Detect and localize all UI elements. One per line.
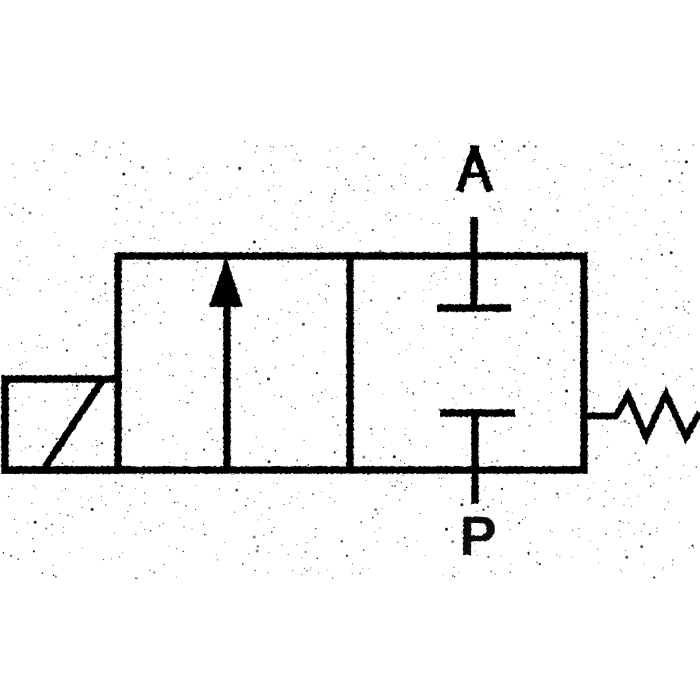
scan speckle noise bbox=[1, 141, 696, 578]
port P stem wire bbox=[471, 411, 478, 504]
flow arrow head bbox=[209, 257, 243, 307]
position divider line bbox=[346, 256, 353, 470]
solenoid diagonal stroke bbox=[45, 381, 102, 467]
solenoid coil box bbox=[5, 379, 118, 470]
port P blocked crossbar bbox=[440, 409, 515, 416]
valve body envelope (two-position) bbox=[118, 256, 584, 470]
svg-text:P: P bbox=[459, 504, 496, 567]
return spring bbox=[584, 394, 700, 437]
label A bbox=[459, 146, 490, 192]
bottom wire shared edge under solenoid bbox=[2, 466, 118, 473]
flow arrow shaft bbox=[223, 300, 230, 470]
port A blocked crossbar bbox=[437, 304, 511, 311]
port A stem wire bbox=[470, 217, 477, 310]
